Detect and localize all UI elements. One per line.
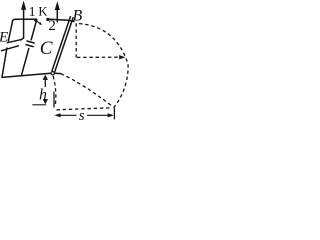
battery E short plate (7, 40, 20, 43)
svg-text:h: h (39, 86, 47, 103)
dimension s right arrow (108, 113, 114, 117)
rod double line left stroke (52, 17, 70, 71)
dimension h top arrow (43, 75, 48, 80)
svg-text:B: B (73, 8, 83, 25)
wire stub right of ball (55, 72, 61, 74)
arrowhead of dashed radius (119, 55, 125, 59)
contact dot 2 (46, 18, 49, 21)
wire left edge upper segment (8, 23, 12, 41)
capacitor C plate A (27, 41, 34, 43)
svg-text:s: s (79, 108, 85, 124)
wire top-left horizontal with rounded corner (12, 19, 34, 23)
rod double line right stroke (55, 18, 73, 72)
ball at corner (51, 72, 54, 75)
wire vertical right stub (56, 10, 58, 22)
dimension s left tick (53, 92, 55, 108)
contact dot 1 (34, 18, 37, 21)
dashed vertical below B (75, 23, 77, 57)
wire left edge lower segment (2, 48, 7, 77)
arrow up right (55, 1, 60, 10)
svg-text:E: E (0, 29, 8, 45)
dimension s right tick (113, 108, 115, 120)
wire vertical left with bend to battery (21, 9, 24, 40)
ground tick under h (32, 104, 46, 106)
svg-text:K: K (38, 4, 47, 18)
dashed horizontal radius (77, 56, 120, 58)
dashed drop line from ball (53, 76, 56, 106)
wire bottom edge (2, 73, 51, 77)
battery E long plate (2, 46, 19, 51)
capacitor C branch lower wire (21, 49, 28, 76)
arrow up left (21, 1, 26, 10)
svg-text:1: 1 (29, 5, 36, 20)
capacitor C branch upper wire (31, 22, 36, 40)
switch lever (37, 21, 40, 24)
svg-text:2: 2 (48, 18, 56, 34)
dashed big arc (79, 24, 128, 108)
dimension s right shaft (87, 114, 108, 116)
wire top right segment (50, 19, 74, 21)
dimension h bottom arrow (43, 99, 48, 104)
dimension h shaft (44, 80, 46, 87)
dashed small arc (61, 74, 114, 107)
capacitor C plate B (26, 45, 33, 47)
svg-text:C: C (40, 38, 53, 59)
dashed ground line (57, 108, 112, 110)
dimension s left arrow (54, 113, 60, 117)
dimension s left shaft (60, 114, 76, 116)
